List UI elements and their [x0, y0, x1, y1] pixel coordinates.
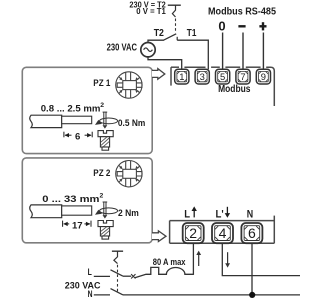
switch T1 contact tick: [176, 37, 178, 40]
wire minus to terminal7: [242, 33, 244, 70]
dimension 6: [64, 132, 92, 138]
svg-text:5: 5: [220, 71, 225, 82]
junction dot: [249, 292, 255, 298]
PZ1 box: [22, 67, 152, 153]
PZ2 box: [22, 158, 152, 243]
svg-text:4: 4: [219, 225, 227, 241]
torque tool PZ2: [100, 202, 118, 215]
label minus: [238, 25, 245, 27]
terminal 2: [183, 223, 204, 243]
svg-text:0.5 Nm: 0.5 Nm: [118, 118, 145, 129]
N line: [123, 294, 300, 296]
wire L: [94, 275, 110, 277]
svg-text:1: 1: [179, 71, 184, 82]
wire plus to terminal9: [262, 33, 264, 70]
terminal 4: [212, 223, 233, 243]
svg-text:T2: T2: [154, 28, 164, 39]
svg-text:L: L: [184, 208, 190, 220]
switch T handle: [112, 250, 123, 252]
svg-text:9: 9: [261, 71, 266, 82]
svg-text:T1: T1: [187, 28, 197, 39]
svg-text:PZ 2: PZ 2: [93, 168, 110, 178]
svg-text:0 V = T1: 0 V = T1: [136, 7, 166, 16]
shunt 80A line: [135, 267, 194, 277]
svg-text:6: 6: [248, 225, 256, 241]
svg-text:0: 0: [218, 19, 225, 34]
wire N: [94, 294, 110, 296]
terminal 1: [175, 69, 189, 84]
wire terminal4 down and right: [222, 243, 300, 275]
pozidriv icon PZ2: [116, 161, 142, 187]
arrow up at terminal2: [198, 253, 200, 266]
svg-text:17: 17: [72, 220, 83, 231]
selector actuator link: [172, 5, 175, 17]
svg-text:2: 2: [189, 225, 197, 241]
svg-text:80 A max: 80 A max: [153, 257, 186, 267]
terminal 3: [195, 69, 209, 84]
arrow PZ2 to terminals: [152, 231, 166, 242]
AC source circle: [141, 43, 155, 57]
svg-text:0.8 ... 2.5 mm: 0.8 ... 2.5 mm: [41, 103, 101, 114]
arrow down at terminal4: [227, 252, 229, 265]
top terminal strip outline: [171, 67, 274, 106]
svg-text:2 Nm: 2 Nm: [118, 208, 139, 219]
label plus: [259, 25, 266, 27]
cable conductor PZ1: [62, 116, 92, 124]
switch blade L: [111, 270, 124, 276]
bottom terminal strip outline: [170, 216, 275, 244]
torque tool PZ1: [100, 112, 118, 125]
terminal 5: [216, 69, 230, 84]
switch T2/T1 blade: [163, 34, 176, 41]
terminal 9: [256, 69, 270, 84]
screw PZ2: [98, 221, 113, 227]
screw PZ1: [98, 131, 113, 137]
wire terminal6 down: [251, 243, 253, 295]
svg-text:2: 2: [100, 193, 104, 200]
wire switch to terminal3: [177, 40, 208, 69]
switch link dashed: [117, 265, 119, 292]
svg-text:N: N: [247, 208, 253, 220]
wire AC top to switch: [148, 40, 164, 42]
pozidriv icon PZ1: [116, 72, 142, 98]
svg-text:230 VAC: 230 VAC: [107, 43, 137, 54]
svg-text:6: 6: [75, 131, 80, 142]
svg-text:Modbus: Modbus: [218, 84, 251, 95]
wire 0 to terminal5: [222, 33, 224, 70]
terminal 7: [236, 69, 250, 84]
wire AC bottom to terminal1: [148, 57, 182, 69]
selector position bar: [168, 4, 181, 6]
x mark: [131, 274, 135, 278]
svg-text:0 ... 33 mm: 0 ... 33 mm: [42, 194, 99, 205]
dimension 17: [63, 221, 91, 227]
cable conductor PZ2: [62, 206, 92, 215]
svg-text:7: 7: [240, 71, 245, 82]
svg-text:Modbus RS-485: Modbus RS-485: [208, 7, 276, 18]
svg-text:L: L: [88, 266, 92, 277]
terminal 6: [241, 223, 262, 243]
svg-text:3: 3: [200, 71, 205, 82]
cable insulation PZ1: [30, 115, 62, 127]
svg-text:N: N: [88, 288, 93, 299]
arrow PZ1 to terminals: [152, 69, 165, 80]
svg-text:L': L': [216, 208, 224, 220]
selector actuator dashed line: [175, 19, 177, 33]
svg-text:2: 2: [100, 102, 104, 109]
wire terminal2 down: [192, 243, 194, 275]
svg-text:230 VAC: 230 VAC: [65, 279, 101, 290]
svg-text:PZ 1: PZ 1: [93, 78, 110, 88]
switch blade N: [111, 289, 124, 295]
cable insulation PZ2: [30, 205, 62, 218]
